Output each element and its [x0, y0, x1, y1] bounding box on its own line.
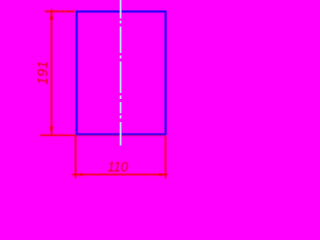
centerline (dash-dot): [119, 0, 121, 146]
dimension extension line top (191): [45, 10, 75, 12]
rectangle outline: [77, 12, 166, 135]
dimension line horizontal 110: [72, 174, 168, 176]
svg-text:110: 110: [107, 159, 128, 174]
svg-text:191: 191: [35, 61, 51, 85]
dimension extension line left (110): [75, 136, 77, 178]
arrowhead left: [75, 173, 82, 176]
arrowhead bottom (down): [50, 127, 54, 135]
arrowhead right: [159, 173, 166, 176]
dimension extension line right (110): [165, 136, 167, 178]
arrowhead top (up): [50, 11, 54, 19]
dimension line vertical 191: [51, 9, 53, 136]
dimension extension line bottom (191): [40, 134, 166, 136]
